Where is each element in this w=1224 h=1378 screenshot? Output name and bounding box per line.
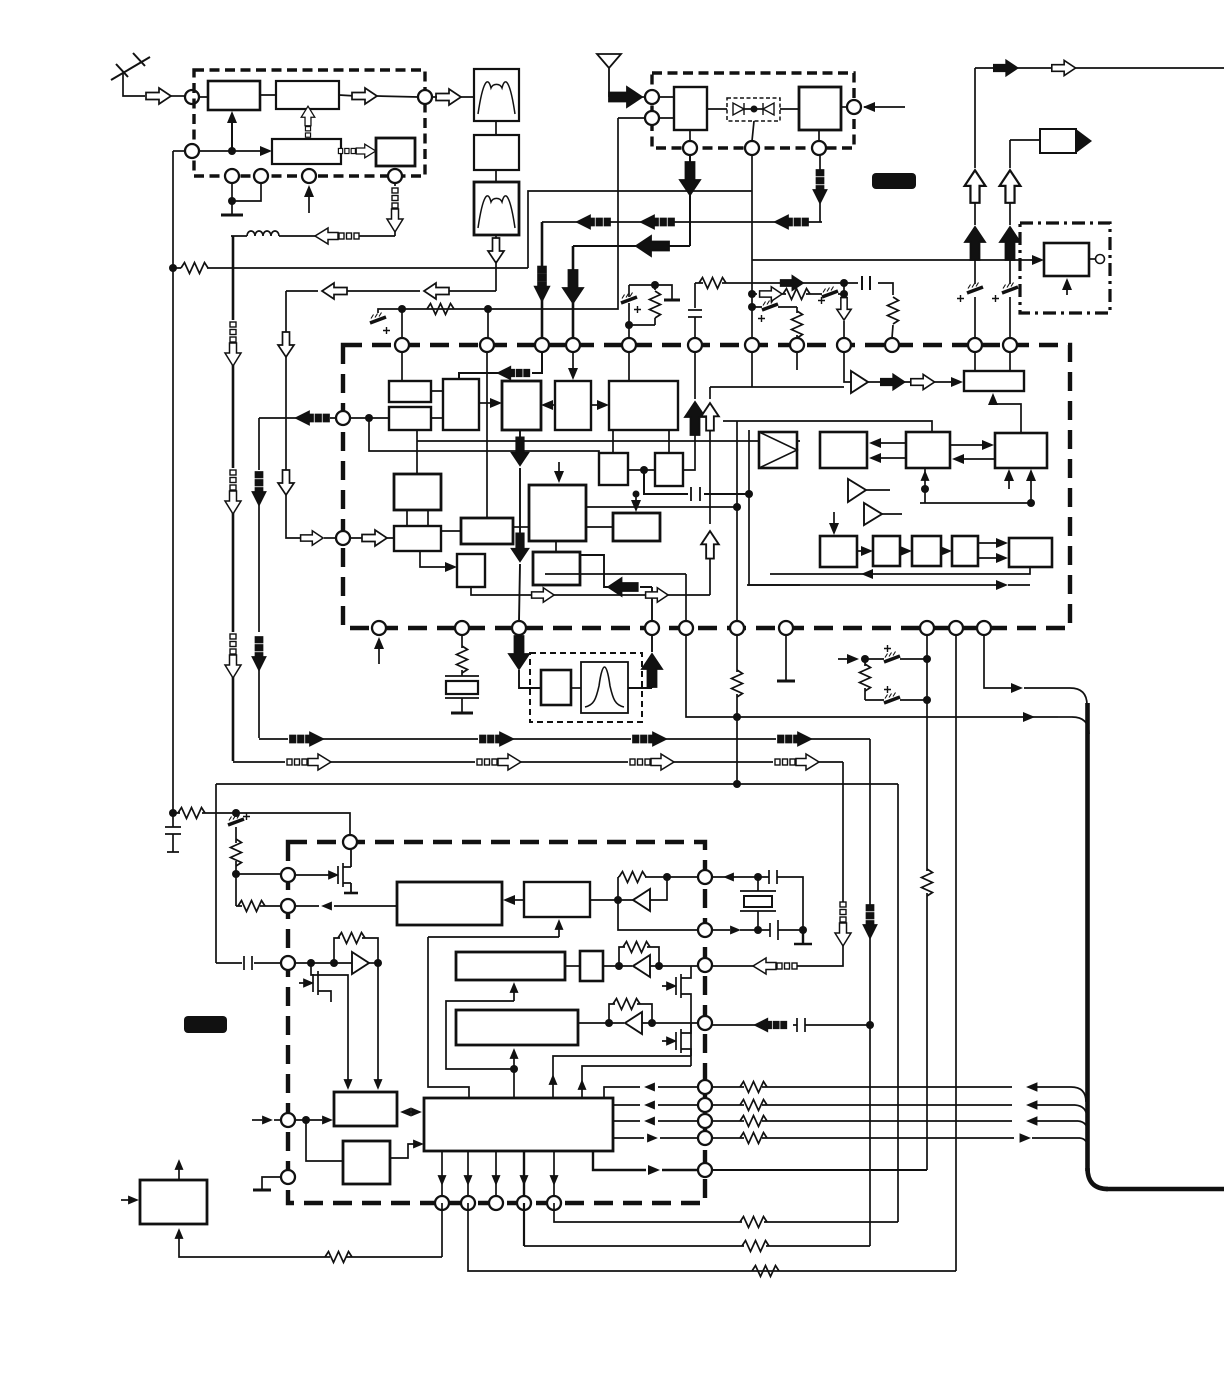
black label IC201 bbox=[184, 1016, 227, 1033]
row y246 to x573 bbox=[573, 236, 690, 256]
box RF amp bbox=[208, 81, 260, 110]
left pins of IC bbox=[336, 411, 350, 425]
wire amp-mixer bbox=[199, 95, 276, 97]
FET Q1 bbox=[324, 842, 358, 893]
wire buffer-filter bbox=[571, 687, 581, 689]
big down arrow pin519 bbox=[509, 635, 541, 688]
box PLL bbox=[272, 139, 341, 164]
wire pin573 into C2 bbox=[568, 352, 578, 380]
box W bbox=[655, 453, 683, 486]
AGC dot and row bbox=[350, 414, 800, 453]
row585 to D5 bbox=[747, 580, 1030, 590]
wire pin402 to L1 bbox=[401, 352, 403, 381]
row717 arrow and curve bbox=[1023, 712, 1089, 734]
box L2 bbox=[389, 407, 431, 430]
wires into RX amp bbox=[659, 97, 674, 118]
box SREG bbox=[424, 1098, 613, 1151]
box B4 bbox=[995, 433, 1047, 468]
AGC row from IC left pin bbox=[259, 412, 336, 425]
top pins of IC bbox=[395, 338, 409, 352]
external rows right pins bbox=[712, 1082, 1080, 1144]
box D4 bbox=[952, 536, 978, 566]
row494 with cap bbox=[644, 470, 753, 501]
riser x528 to row191 bbox=[528, 191, 752, 268]
box D2 bbox=[873, 536, 900, 566]
wire OSC1-OSC1b bbox=[565, 965, 580, 967]
filter out up arrow into pin652 bbox=[628, 635, 662, 688]
rail x843 down bbox=[712, 762, 851, 974]
bold drop pin542 row373 bbox=[459, 352, 542, 379]
row906 out to pin bbox=[295, 902, 397, 911]
box IF amp bbox=[474, 135, 519, 170]
amp TA3 bbox=[578, 999, 698, 1035]
bold rail x233 down bbox=[225, 236, 241, 761]
box RX amp bbox=[674, 87, 707, 130]
wire pin797 down bbox=[796, 352, 798, 370]
arrow B3 to B4 bbox=[950, 440, 994, 450]
supply rail x975 bbox=[957, 68, 985, 338]
pin2 drop to row191 bbox=[751, 155, 753, 338]
V-W link and dot bbox=[628, 466, 655, 474]
arrow P2 to S bbox=[420, 551, 457, 572]
pin1025 cap row bbox=[712, 1018, 870, 1032]
RF bottom pin1 bbox=[683, 141, 697, 155]
triangle amp A2 bbox=[848, 479, 890, 502]
M1 feedback riser bbox=[428, 919, 564, 1098]
row309 bbox=[748, 300, 803, 339]
box TX amp bbox=[799, 87, 841, 130]
arrow C2 to R1 bbox=[591, 400, 609, 410]
box T big bbox=[529, 485, 586, 541]
supply pins into REG bbox=[975, 352, 1010, 371]
input arrow from right bbox=[863, 102, 905, 112]
wires L1,L2 to M bbox=[431, 391, 443, 418]
row y222 collector bbox=[542, 216, 822, 229]
triangle amp A3 bbox=[864, 503, 902, 525]
pin OSC row bbox=[185, 144, 199, 158]
RF bottom pin3 bbox=[812, 141, 826, 155]
pin out right bbox=[847, 100, 861, 114]
TA0 out drop to CTL1 bbox=[374, 963, 383, 1090]
box sensor bbox=[1044, 243, 1089, 276]
box CTL2 bbox=[343, 1141, 390, 1184]
row587 X out to pin652 bbox=[580, 555, 652, 621]
bottom row pin468 bbox=[468, 1203, 956, 1271]
OSC1 bottom arrow chain bbox=[446, 982, 519, 1098]
tuner bottom pin 4 bbox=[388, 169, 402, 183]
pin786 stub bbox=[777, 635, 795, 681]
diode limiter dashed box bbox=[727, 98, 780, 121]
tuner bottom pin 1 bbox=[225, 169, 239, 183]
arrow into U top bbox=[631, 491, 641, 513]
box buffer bbox=[541, 670, 571, 705]
crystal osc TA1 bbox=[590, 872, 698, 931]
bottom row pin524 bbox=[523, 1203, 525, 1246]
arrow AGC up into RF amp bbox=[227, 111, 237, 151]
pin in1 bbox=[645, 90, 659, 104]
box C1 det bbox=[502, 381, 541, 430]
box M1 bbox=[524, 882, 590, 917]
CTL2-SREG arrow bbox=[390, 1140, 424, 1159]
box L1 bbox=[389, 381, 431, 402]
arrows D1-D2-D3-D4 bbox=[857, 546, 952, 556]
lower IC left pins bbox=[281, 868, 295, 882]
gate wire from pin875 bbox=[295, 874, 324, 876]
filter FL2 output drop bbox=[488, 235, 504, 291]
diode D2 bbox=[763, 103, 774, 115]
bold drop x573 to pin bbox=[563, 246, 583, 338]
cap into pin963 bbox=[216, 956, 281, 970]
rail x749 bbox=[749, 430, 800, 585]
tuner dashed box bbox=[194, 70, 425, 176]
box D5 bbox=[1009, 538, 1052, 567]
wire pin to left rail bbox=[173, 150, 185, 152]
amp TA2 bbox=[603, 942, 698, 978]
top output line y68 bbox=[975, 60, 1224, 75]
row294 bbox=[748, 287, 844, 305]
bus bottom elbow bbox=[1088, 1168, 1109, 1189]
pin in2 bbox=[645, 111, 659, 125]
wire Q-T bbox=[513, 526, 529, 528]
row283 supply bbox=[695, 276, 899, 338]
SREG serial out bold bbox=[593, 1151, 698, 1175]
box R1 bbox=[609, 381, 678, 430]
box B2 bbox=[820, 432, 867, 468]
FET Q2 bbox=[299, 963, 353, 1090]
row595 S out to x710 bbox=[471, 587, 710, 602]
rail x956 down bbox=[955, 635, 957, 1271]
box OSC1 bbox=[456, 952, 565, 980]
pin RF in bbox=[185, 90, 199, 104]
wire T-X bbox=[555, 541, 557, 552]
ticks + open down arrow below pin4 bbox=[387, 183, 403, 236]
arrows up into B4 bottom bbox=[920, 468, 1036, 507]
crystal X1 below pin462 bbox=[445, 635, 479, 713]
supply rail x1010 bbox=[992, 140, 1020, 338]
SREG bottom drops bbox=[438, 1151, 559, 1196]
riser x822 ticks arrow bbox=[814, 155, 827, 222]
arrowhead into PLL box bbox=[260, 146, 272, 156]
box BIG1 mpx bbox=[759, 432, 797, 468]
serial row out bbox=[712, 1169, 927, 1171]
tuner bottom pin 3 bbox=[302, 169, 316, 183]
wire pin538 into P2 bbox=[350, 530, 394, 546]
box P2 bbox=[394, 526, 441, 551]
antenna ANT1 bbox=[111, 53, 150, 96]
rail x927 down bbox=[922, 635, 933, 1170]
row739 bus bbox=[259, 733, 870, 746]
diode junction dot bbox=[751, 106, 758, 113]
rail x286 down to pin bbox=[278, 291, 336, 545]
row784 link bbox=[216, 783, 898, 785]
P1-P2 links bbox=[407, 510, 428, 526]
box mixer bbox=[276, 81, 339, 109]
row507 T to x737 bbox=[586, 430, 741, 621]
RF bottom pin2 bbox=[745, 141, 759, 155]
box AFC bottom-left bbox=[121, 1159, 207, 1224]
SREG right rows bbox=[604, 1083, 698, 1143]
row574 pin686 bbox=[545, 574, 686, 621]
wires box to pins bbox=[690, 121, 819, 141]
box V bbox=[599, 453, 628, 485]
box LPF1 bbox=[397, 882, 502, 925]
row y236 with coil L1 bbox=[231, 228, 395, 244]
diode D1 bbox=[733, 103, 744, 115]
box OSC2 bbox=[456, 1010, 578, 1045]
wire pin695 from W bbox=[683, 352, 705, 470]
pin1177 ground bbox=[253, 1177, 295, 1190]
arrow C2 to C1 bbox=[541, 400, 555, 410]
FET Q5 bbox=[662, 1023, 691, 1066]
pin IF out bbox=[418, 90, 432, 104]
pin686 drop to row717 bbox=[686, 635, 1058, 717]
open arrow up into mixer bbox=[301, 106, 315, 143]
bottom pins of IC bbox=[372, 621, 386, 635]
rail x844 bbox=[837, 283, 851, 338]
drop L2 to P1 bbox=[416, 430, 418, 474]
bottom row pin442 bbox=[175, 1203, 443, 1263]
box C2 bbox=[555, 381, 591, 430]
connector plug CN1 bbox=[1010, 129, 1092, 153]
arrow up into sensor bbox=[1062, 278, 1072, 295]
arrow into B3 from right bbox=[952, 454, 995, 464]
dash-dot box remote unit bbox=[1020, 223, 1110, 313]
filter FL2 bbox=[474, 182, 519, 235]
output bubble bbox=[1089, 255, 1105, 264]
arrow into T top bbox=[554, 462, 564, 483]
block arrow into tuner bbox=[146, 88, 171, 104]
crystal X2 circuit bbox=[712, 870, 812, 944]
arrow M to C1 bbox=[479, 398, 502, 408]
resistor row1271 bbox=[745, 1266, 779, 1277]
drop C1 bottom rail x520 bbox=[512, 430, 529, 621]
block arrow to filter bbox=[436, 89, 461, 105]
bus curves rows 1087-1138 bbox=[1071, 1087, 1086, 1102]
tuner bottom pin 2 bbox=[254, 169, 268, 183]
wires R1 to V,W bbox=[613, 430, 669, 453]
wire pin629 into R1 bbox=[628, 352, 630, 381]
feed row y260 into sensor bbox=[752, 255, 1044, 265]
row762 bus bbox=[233, 754, 843, 770]
riser x710 with open arrows bbox=[701, 387, 844, 595]
row y291 to x286 bbox=[286, 283, 496, 299]
ceramic filter dashed box bbox=[530, 653, 642, 722]
wire bbox=[171, 95, 185, 97]
box P1 bbox=[394, 474, 441, 510]
wire OSC row bbox=[199, 150, 262, 152]
stub arrow into pin379 bbox=[374, 637, 384, 664]
wire bbox=[495, 121, 497, 182]
box X bbox=[533, 552, 580, 585]
main bus vertical bbox=[1085, 703, 1090, 1171]
lower IC bottom pins bbox=[435, 1196, 449, 1210]
row421 to B3 top bbox=[723, 421, 932, 432]
block arrow IF out bbox=[352, 88, 377, 104]
filter bell box bbox=[581, 662, 628, 713]
arrows into B2 bbox=[869, 438, 906, 463]
wire mixer out bbox=[339, 95, 418, 97]
bus bottom run bbox=[1106, 1187, 1224, 1192]
big down arrow under pin1 bbox=[680, 155, 700, 246]
box OSC1b bbox=[580, 951, 603, 981]
rail x898 down bbox=[897, 784, 899, 1222]
cap on pin695 bbox=[688, 283, 702, 338]
RF unit dashed box bbox=[652, 73, 854, 148]
box VCO bbox=[376, 138, 415, 166]
box U bbox=[613, 513, 660, 541]
arrows A1 to REG bbox=[868, 374, 963, 389]
lower IC right pins bbox=[698, 870, 712, 884]
filled arrow into RF box bbox=[609, 87, 642, 107]
box D1 bbox=[820, 536, 857, 567]
pin1120 wiring bbox=[252, 1116, 343, 1162]
box M div bbox=[443, 379, 479, 430]
black label VL201 bbox=[872, 173, 916, 189]
central IC dashed outline bbox=[343, 345, 1070, 628]
box D3 bbox=[912, 536, 941, 566]
pin737 rail bbox=[732, 635, 743, 788]
supply filter at pin629 bbox=[621, 281, 680, 338]
lower IC top pin bbox=[343, 835, 357, 849]
box B3 bbox=[906, 432, 950, 468]
arrow up into pin3 bbox=[304, 185, 314, 213]
left rail x173 bbox=[172, 151, 174, 813]
ground pin1 bbox=[221, 183, 261, 215]
electrolytic + resistor chain at x236 bbox=[228, 813, 281, 912]
box Q bbox=[461, 518, 513, 544]
arrow into B3 bottom bbox=[921, 470, 930, 481]
ticks arrow to VCO bbox=[338, 144, 375, 158]
rail x984 to bus bbox=[984, 635, 1053, 693]
row309 feed from x618 bbox=[370, 118, 618, 338]
SREG top risers bbox=[549, 1056, 692, 1098]
wire to filter bbox=[432, 96, 474, 98]
supply caps at pins927/956 bbox=[838, 645, 931, 704]
wire T-U bbox=[586, 526, 613, 528]
wire bbox=[642, 96, 645, 98]
box S bbox=[457, 554, 485, 587]
arrow up into REG bottom bbox=[988, 393, 1021, 433]
junction dot bbox=[228, 147, 236, 155]
amp TA0 bbox=[295, 933, 382, 975]
arrow M1 to LPF1 bbox=[503, 895, 524, 905]
arrow into D1 top bbox=[829, 512, 839, 535]
wire P2-Q bbox=[441, 530, 461, 532]
box CTL1 bbox=[334, 1092, 397, 1126]
box REG bbox=[964, 371, 1024, 391]
cap to gnd at x173 bbox=[165, 813, 181, 852]
arrows D4 to D5 bbox=[978, 538, 1008, 563]
wires diode box bbox=[707, 108, 799, 110]
left rail x216 bbox=[215, 784, 217, 963]
wire pin752 down bbox=[751, 352, 753, 387]
bottom row pin554 bbox=[554, 1203, 898, 1228]
FET Q4 bbox=[662, 966, 691, 1056]
triangle amp A1 bbox=[844, 352, 868, 393]
wire pin487 to Q bbox=[486, 352, 488, 518]
bold drop x542 to pin bbox=[536, 222, 549, 338]
antenna ANT2 bbox=[597, 54, 621, 97]
wire tuner2 pin in2 to x618 bbox=[618, 117, 645, 119]
CTL1-SREG double arrow bbox=[400, 1108, 422, 1117]
row y268 resistor R2 bbox=[169, 263, 528, 274]
filter FL1 bbox=[474, 69, 519, 121]
row574 D5 return bbox=[770, 567, 1030, 579]
rail x259 from AGC row to row739 bbox=[253, 418, 266, 738]
rail x870 down bbox=[864, 739, 877, 1246]
lower IC dashed outline bbox=[288, 842, 705, 1203]
bus curve from row688 bbox=[1053, 688, 1087, 705]
left rail end dot x173 bbox=[169, 808, 350, 836]
